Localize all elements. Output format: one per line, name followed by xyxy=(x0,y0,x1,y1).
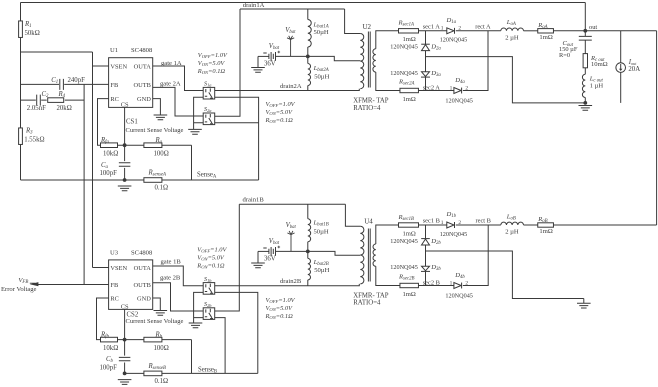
wire Ca top stub xyxy=(124,145,126,161)
svg-text:S2a: S2a xyxy=(204,106,212,113)
diode D4a body xyxy=(454,88,461,94)
wire secondary top pin A xyxy=(376,31,399,49)
resistor Rb body xyxy=(144,337,162,342)
ground U1 GND xyxy=(154,115,168,120)
svg-text:120NQ045: 120NQ045 xyxy=(440,231,468,238)
wire D4b up to rect B xyxy=(463,225,488,286)
svg-text:U2: U2 xyxy=(363,23,372,31)
svg-text:120NQ045: 120NQ045 xyxy=(445,293,473,300)
svg-text:50µH: 50µH xyxy=(314,228,329,235)
svg-text:1: 1 xyxy=(450,85,453,91)
svg-text:OUTA: OUTA xyxy=(134,265,152,272)
svg-text:sec1 A: sec1 A xyxy=(423,23,441,30)
wire S1b terminal2 to sense xyxy=(215,292,258,373)
wire gate 1A from OUTA xyxy=(153,66,204,91)
diode D3a 120NQ045 xyxy=(422,72,430,77)
svg-text:XFMR- TAP: XFMR- TAP xyxy=(353,292,389,299)
svg-text:RON=0.1Ω: RON=0.1Ω xyxy=(196,262,225,269)
wire drain2B rail xyxy=(215,284,360,286)
wire primary top pin A xyxy=(345,9,361,34)
battery VbatA plates xyxy=(269,52,276,61)
switch S2b body xyxy=(203,308,215,320)
wire gate 2B from OUTB xyxy=(153,283,204,311)
svg-text:rect B: rect B xyxy=(476,218,491,225)
svg-text:SC4808: SC4808 xyxy=(131,47,153,54)
switch S1a body xyxy=(203,87,215,99)
inductor Lbat1A xyxy=(308,20,311,48)
wire S2b terminal2 to sense xyxy=(215,318,225,374)
svg-text:gate 2A: gate 2A xyxy=(160,81,181,88)
svg-text:120NQ045: 120NQ045 xyxy=(440,37,468,44)
svg-text:rect A: rect A xyxy=(475,23,491,30)
wire LoA to RoA xyxy=(524,30,538,32)
svg-text:240pF: 240pF xyxy=(68,77,86,84)
svg-text:RON=0.1Ω: RON=0.1Ω xyxy=(197,68,226,75)
wire gate 1B from OUTA xyxy=(153,266,204,286)
svg-text:1 µH: 1 µH xyxy=(590,82,604,89)
svg-text:1mΩ: 1mΩ xyxy=(403,291,416,298)
svg-text:VON=5.0V: VON=5.0V xyxy=(266,109,294,116)
inductor Lcout 1uH xyxy=(582,74,585,97)
svg-text:120NQ045: 120NQ045 xyxy=(390,238,418,245)
resistor Rsec2B body xyxy=(400,283,419,287)
svg-text:XFMR- TAP: XFMR- TAP xyxy=(353,98,389,105)
power VbatB bubble symbol xyxy=(287,231,294,252)
svg-text:120NQ045: 120NQ045 xyxy=(390,70,418,77)
svg-text:gate 1B: gate 1B xyxy=(161,259,182,266)
wire sec2 A to D4a xyxy=(419,90,454,92)
svg-text:drain2A: drain2A xyxy=(280,83,302,90)
wire out top rail xyxy=(21,2,586,4)
svg-text:0.1Ω: 0.1Ω xyxy=(155,378,169,385)
resistor Rfb body xyxy=(101,337,118,342)
svg-text:OUTB: OUTB xyxy=(133,82,150,89)
svg-text:Error Voltage: Error Voltage xyxy=(1,286,37,293)
svg-text:Iout: Iout xyxy=(628,59,637,66)
svg-text:100pF: 100pF xyxy=(100,365,118,372)
svg-text:OUTA: OUTA xyxy=(134,63,152,70)
svg-text:GND: GND xyxy=(137,96,151,103)
svg-text:RC: RC xyxy=(110,96,119,103)
diode D1a body xyxy=(447,28,454,34)
svg-text:1mΩ: 1mΩ xyxy=(403,230,416,237)
resistor RsenseB body xyxy=(144,371,162,376)
wire Ca bottom stub xyxy=(124,168,126,180)
wire drain1B rail xyxy=(239,203,345,205)
wire U1 CS pin drop xyxy=(124,107,126,145)
wire battery ground stub A xyxy=(257,56,259,67)
wire Rcout to Lcout xyxy=(584,68,586,75)
wire gate 2A from OUTB xyxy=(153,87,204,116)
resistor R3 body xyxy=(19,128,23,145)
wire Iout top xyxy=(620,31,622,63)
svg-text:out: out xyxy=(589,24,597,31)
wire sec1 A to D1a xyxy=(419,30,447,32)
svg-text:50µH: 50µH xyxy=(314,267,329,274)
wire secondary top pin B xyxy=(376,225,399,244)
svg-text:VON=5.0V: VON=5.0V xyxy=(198,60,226,67)
wire U3 RC pin dogleg xyxy=(97,298,109,340)
node CS junction B xyxy=(123,338,127,342)
resistor Rsec1A body xyxy=(399,29,419,33)
node mid junction A xyxy=(306,55,310,59)
inductor Lbat2A xyxy=(308,64,311,86)
wire diode chain vertical A xyxy=(425,31,427,91)
svg-text:U1: U1 xyxy=(110,47,118,54)
op-amp U3 box xyxy=(109,260,153,310)
svg-text:1mΩ: 1mΩ xyxy=(539,228,552,235)
svg-text:100pF: 100pF xyxy=(100,170,118,177)
wire secondary bottom pin A xyxy=(376,72,400,90)
power VbatA bubble symbol xyxy=(287,36,294,57)
svg-text:gate 1A: gate 1A xyxy=(161,60,182,67)
current source Iout body xyxy=(616,63,626,73)
svg-text:1mΩ: 1mΩ xyxy=(403,96,416,103)
svg-text:VON=5.0V: VON=5.0V xyxy=(197,254,225,261)
svg-text:1: 1 xyxy=(441,26,444,32)
wire S2a terminal1 to drain1A xyxy=(215,9,240,116)
svg-text:S1b: S1b xyxy=(204,276,212,283)
wire Lbat1A stubs xyxy=(307,9,309,56)
inductor LoA coil xyxy=(501,28,524,31)
svg-text:CS1: CS1 xyxy=(126,119,138,126)
ground U3 GND xyxy=(154,311,168,316)
node ground junction A xyxy=(123,178,127,182)
wire D1a to rect A xyxy=(456,30,501,32)
wire Lcout to ground node xyxy=(584,98,586,103)
svg-text:1.55kΩ: 1.55kΩ xyxy=(24,136,44,143)
svg-text:Current Sense Voltage: Current Sense Voltage xyxy=(126,318,184,325)
svg-text:U4: U4 xyxy=(364,217,373,225)
op-amp U1 box xyxy=(109,58,153,108)
svg-text:100Ω: 100Ω xyxy=(154,345,169,352)
svg-text:S1a: S1a xyxy=(204,81,212,88)
ground battery B xyxy=(251,263,265,268)
diode D4b body xyxy=(454,283,461,289)
wire sec2 B to D4b xyxy=(419,285,454,287)
capacitor Ca plates xyxy=(119,163,131,166)
capacitor Cb plates xyxy=(119,357,131,360)
wire U1 GND pin xyxy=(153,99,161,115)
ground phase B return xyxy=(577,303,591,308)
wire phase B return ground stub xyxy=(583,299,585,304)
transformer U2 XFMR-TAP xyxy=(360,34,363,89)
capacitor C1 plates xyxy=(60,79,64,90)
wire D4a up to rect A xyxy=(463,31,488,91)
svg-text:VON=5.0V: VON=5.0V xyxy=(266,305,294,312)
svg-text:1mΩ: 1mΩ xyxy=(539,34,552,41)
svg-text:VOFF=1.0V: VOFF=1.0V xyxy=(266,297,296,304)
svg-text:1: 1 xyxy=(441,220,444,226)
wire out rail right xyxy=(585,30,656,32)
wire out rail down xyxy=(584,3,586,37)
wire battery minus B xyxy=(258,250,269,252)
transformer U4 XFMR-TAP xyxy=(360,226,364,284)
ground battery A xyxy=(251,68,265,73)
node CS junction A xyxy=(123,143,127,147)
svg-text:RON=0.1Ω: RON=0.1Ω xyxy=(265,313,294,320)
resistor Rsec1B body xyxy=(399,223,419,227)
resistor R1 body xyxy=(19,21,23,38)
wire Cb top stub xyxy=(124,340,126,356)
svg-text:drain1A: drain1A xyxy=(243,2,265,9)
svg-text:1: 1 xyxy=(450,280,453,286)
wire Lbat2B stubs xyxy=(307,251,309,285)
svg-text:20kΩ: 20kΩ xyxy=(57,105,72,112)
inductor Lbat1B xyxy=(308,219,311,242)
wire S2b terminal1 to drain1B xyxy=(215,204,240,311)
wire U3 GND pin xyxy=(153,298,161,311)
svg-text:2 µH: 2 µH xyxy=(505,229,519,236)
svg-text:VOFF=1.0V: VOFF=1.0V xyxy=(197,246,227,253)
svg-text:50µH: 50µH xyxy=(314,74,329,81)
wire switch control minus to ground B xyxy=(194,292,204,323)
wire left feedback rail xyxy=(20,3,22,181)
wire LoB to RoB xyxy=(524,224,538,226)
resistor RsenseA body xyxy=(144,178,162,183)
wire VSEN node row xyxy=(21,51,93,53)
wire RoA to out node xyxy=(554,30,586,32)
ground switch control A xyxy=(188,129,202,134)
diode D2a 120NQ045 xyxy=(421,43,430,45)
node ground junction B xyxy=(123,372,127,376)
diode D2b 120NQ045 xyxy=(421,238,430,240)
wire VSEN vertical (node to both chips) xyxy=(92,52,94,268)
node out xyxy=(583,29,587,33)
svg-text:120NQ045: 120NQ045 xyxy=(445,98,473,105)
svg-text:FB: FB xyxy=(110,282,118,289)
ground phase A sense xyxy=(118,186,132,191)
svg-text:0.1Ω: 0.1Ω xyxy=(155,184,169,191)
wire phase B output riser xyxy=(656,31,658,225)
resistor Ra body xyxy=(144,143,162,148)
wire Lbat2A stubs xyxy=(307,56,309,90)
svg-text:1mΩ: 1mΩ xyxy=(403,36,416,43)
capacitor Cout 150uF xyxy=(579,36,592,40)
svg-text:10mΩ: 10mΩ xyxy=(591,61,608,68)
svg-text:FB: FB xyxy=(110,82,118,89)
battery VbatB plates xyxy=(269,247,276,256)
diode D3b 120NQ045 xyxy=(422,266,430,271)
svg-text:10kΩ: 10kΩ xyxy=(103,150,118,157)
wire Iout bottom xyxy=(620,72,622,103)
wire CS node row B xyxy=(118,339,192,341)
svg-text:20A: 20A xyxy=(628,66,640,73)
svg-text:drain2B: drain2B xyxy=(280,278,302,285)
wire Vbat mid rail A xyxy=(276,56,361,60)
svg-text:Current Sense Voltage: Current Sense Voltage xyxy=(126,127,184,134)
svg-text:RATIO=4: RATIO=4 xyxy=(353,300,381,307)
resistor RoA body xyxy=(538,29,554,33)
node mid junction B xyxy=(306,250,310,254)
svg-text:50kΩ: 50kΩ xyxy=(25,30,40,37)
wire diode chain vertical B xyxy=(425,225,427,286)
svg-text:10kΩ: 10kΩ xyxy=(103,345,118,352)
svg-text:36V: 36V xyxy=(264,255,276,262)
wire battery minus A xyxy=(258,55,269,57)
wire Cb bottom stub xyxy=(124,363,126,374)
svg-text:RATIO=4: RATIO=4 xyxy=(353,105,381,112)
resistor Rfa body xyxy=(101,143,118,148)
wire VFB FB row U3 xyxy=(37,284,108,286)
switch S1b body xyxy=(203,283,215,295)
wire RoB to riser xyxy=(554,224,657,226)
svg-text:VSEN: VSEN xyxy=(110,265,127,272)
wire phase A ground rail xyxy=(21,179,259,181)
svg-text:OUTB: OUTB xyxy=(133,282,150,289)
svg-text:2 µH: 2 µH xyxy=(505,34,519,41)
wire diode midpoint return B xyxy=(426,251,584,299)
svg-text:S2b: S2b xyxy=(204,301,212,308)
wire diode midpoint return A xyxy=(426,57,586,103)
svg-text:VOFF=1.0V: VOFF=1.0V xyxy=(198,52,228,59)
wire FB vertical (node to both chips) xyxy=(83,84,85,284)
wire Cout to Rcout xyxy=(584,40,586,54)
svg-text:gate 2B: gate 2B xyxy=(160,274,181,281)
node output ground junction xyxy=(583,101,587,105)
svg-text:50µH: 50µH xyxy=(314,29,329,36)
svg-text:GND: GND xyxy=(137,295,151,302)
wire drain2A rail xyxy=(215,89,360,91)
wire CS node row xyxy=(118,144,192,146)
svg-text:drain1B: drain1B xyxy=(243,196,265,203)
svg-text:sec2 A: sec2 A xyxy=(423,84,441,91)
resistor Rcout body xyxy=(583,54,587,68)
wire S1a terminal2 to sense xyxy=(215,97,259,180)
wire drain1A rail xyxy=(240,8,345,10)
resistor Rsec2A body xyxy=(400,88,419,92)
wire Lbat1B stubs xyxy=(307,204,309,251)
wire FB row U1 xyxy=(21,83,109,85)
resistor R4 body xyxy=(48,98,64,103)
wire VSEN stub U1 xyxy=(93,65,109,67)
svg-text:SC4808: SC4808 xyxy=(131,249,153,256)
wire S2a terminal2 join xyxy=(215,122,259,124)
switch S2a body xyxy=(203,113,215,125)
svg-text:VSEN: VSEN xyxy=(110,63,127,70)
wire sec1 B to D1b xyxy=(419,224,447,226)
svg-text:36V: 36V xyxy=(264,60,276,67)
svg-text:120NQ045: 120NQ045 xyxy=(390,264,418,271)
inductor LoB coil xyxy=(501,222,524,225)
resistor RoB body xyxy=(538,223,554,227)
wire secondary bottom pin B xyxy=(376,266,400,285)
svg-text:R=0: R=0 xyxy=(559,52,570,59)
wire SenseB drop xyxy=(191,340,193,374)
wire battery ground stub B xyxy=(257,251,259,263)
svg-text:RC: RC xyxy=(110,295,119,302)
svg-text:2.05nF: 2.05nF xyxy=(27,105,46,112)
ground output xyxy=(579,106,593,111)
svg-text:100Ω: 100Ω xyxy=(154,150,169,157)
ground switch control B xyxy=(189,323,203,328)
svg-text:RON=0.1Ω: RON=0.1Ω xyxy=(265,117,294,124)
svg-text:120NQ045: 120NQ045 xyxy=(390,44,418,51)
wire primary top pin B xyxy=(345,204,360,226)
wire SenseA drop xyxy=(191,145,193,180)
diode D1b body xyxy=(447,222,454,228)
wire VSEN stub U3 xyxy=(93,267,109,269)
wire switch control minus to ground A xyxy=(194,97,204,129)
svg-text:sec1 B: sec1 B xyxy=(423,218,440,225)
svg-text:VOFF=1.0V: VOFF=1.0V xyxy=(266,101,296,108)
wire phase B sense rail xyxy=(125,372,258,374)
wire U3 CS pin drop xyxy=(124,309,126,339)
ground phase B sense xyxy=(118,380,132,385)
capacitor C2 plates xyxy=(37,95,41,106)
wire Vbat mid rail B xyxy=(276,251,361,255)
svg-text:sec2 B: sec2 B xyxy=(423,279,440,286)
wire D1b to rect B xyxy=(456,224,501,226)
wire compensation row C2-R4 xyxy=(21,99,85,101)
wire U1 RC pin dogleg xyxy=(98,99,109,146)
svg-text:U3: U3 xyxy=(110,249,119,256)
inductor Lbat2B xyxy=(308,258,311,280)
node VFB error voltage arrow xyxy=(30,282,39,286)
